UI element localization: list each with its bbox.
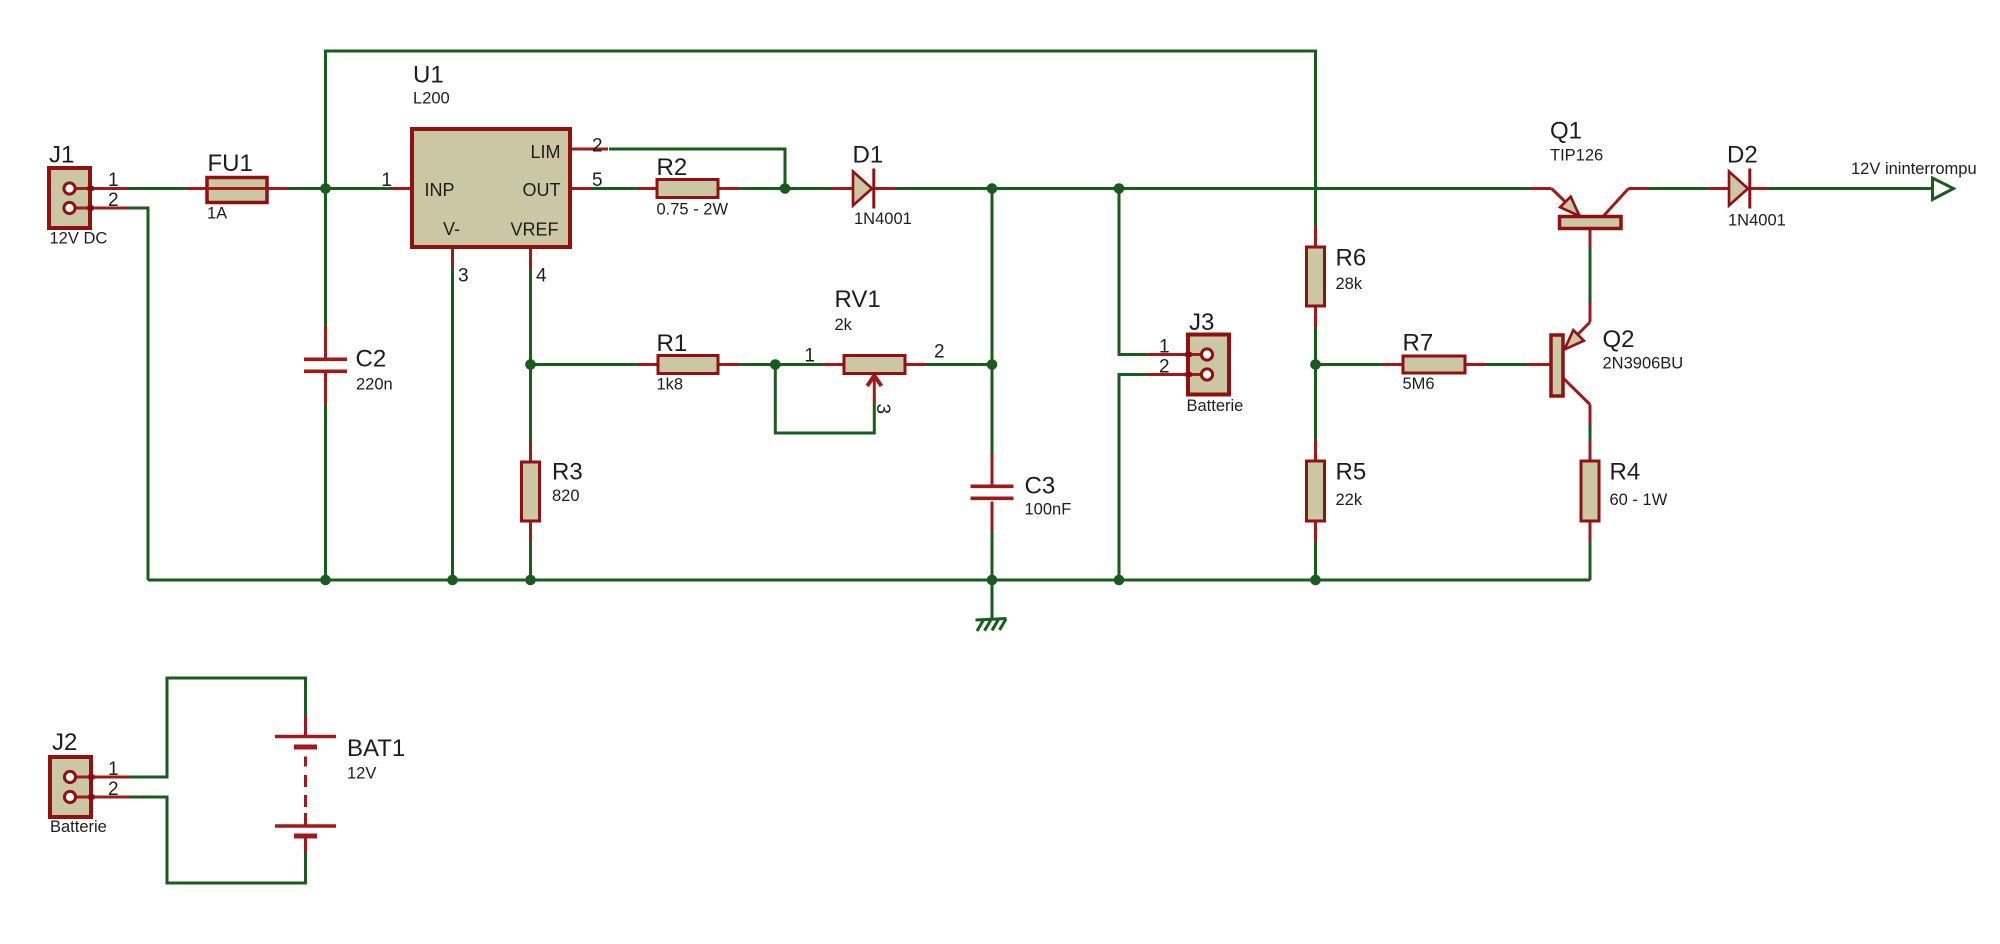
- wire J2 pin1 loop to BAT1 plus: [130, 678, 306, 777]
- resistor R2: [637, 180, 739, 198]
- node junction VREF/R1/R3: [525, 359, 536, 370]
- svg-text:R3: R3: [552, 459, 583, 486]
- node junction bottom rail C2: [320, 575, 331, 586]
- svg-text:5M6: 5M6: [1403, 375, 1435, 393]
- capacitor C3: [971, 453, 1014, 531]
- wire node B to R7: [1316, 363, 1383, 366]
- svg-text:D2: D2: [1727, 142, 1758, 169]
- svg-text:12V ininterrompu: 12V ininterrompu: [1851, 160, 1977, 178]
- svg-text:1: 1: [108, 759, 119, 780]
- connector J3: [1148, 335, 1229, 395]
- svg-text:2: 2: [934, 342, 945, 363]
- resistor R5: [1307, 440, 1325, 542]
- node junction R6/R5/R7: [1310, 359, 1321, 370]
- svg-text:22k: 22k: [1336, 491, 1363, 509]
- svg-text:LIM: LIM: [530, 142, 560, 162]
- wire J1 pin1 to FU1: [128, 187, 186, 190]
- svg-text:5: 5: [592, 170, 603, 191]
- node junction bottom rail V-: [447, 575, 458, 586]
- wire ground stub: [991, 580, 994, 619]
- wire FU1 to U1 INP: [288, 187, 391, 190]
- svg-text:2: 2: [108, 190, 119, 211]
- svg-text:C2: C2: [356, 346, 387, 373]
- svg-text:4: 4: [536, 266, 547, 287]
- wire node B to R5 top: [1314, 365, 1317, 441]
- svg-text:OUT: OUT: [523, 180, 561, 200]
- wire C3 column lower: [991, 531, 994, 580]
- node junction LIM/OUT: [780, 183, 791, 194]
- svg-text:0.75 - 2W: 0.75 - 2W: [657, 201, 729, 219]
- node junction RV1 pin2/C3: [987, 359, 998, 370]
- diode D2: [1707, 169, 1768, 209]
- wire U1 OUT to R2: [591, 187, 637, 190]
- svg-text:V-: V-: [443, 219, 460, 239]
- svg-text:Batterie: Batterie: [50, 818, 107, 836]
- transistor Q1 TIP126: [1529, 189, 1649, 249]
- wire RV1 wiper loop: [775, 365, 874, 434]
- svg-text:1: 1: [108, 170, 119, 191]
- svg-text:12V: 12V: [347, 765, 376, 783]
- svg-text:FU1: FU1: [208, 150, 253, 177]
- svg-text:2N3906BU: 2N3906BU: [1603, 355, 1684, 373]
- capacitor C2: [304, 326, 347, 404]
- wire R2 to D1 anode: [739, 187, 832, 190]
- svg-text:1k8: 1k8: [657, 376, 684, 394]
- svg-text:R6: R6: [1336, 245, 1367, 272]
- svg-text:3: 3: [872, 404, 893, 415]
- connector J1: [49, 168, 128, 228]
- wire bottom ground rail: [148, 579, 1590, 582]
- node junction FU1/C2/top-rail: [320, 183, 331, 194]
- svg-text:BAT1: BAT1: [347, 735, 405, 762]
- svg-text:R2: R2: [657, 154, 688, 181]
- svg-text:L200: L200: [413, 90, 450, 108]
- svg-text:28k: 28k: [1336, 275, 1363, 293]
- svg-text:60 - 1W: 60 - 1W: [1610, 491, 1668, 509]
- wire node A to R1: [531, 363, 638, 366]
- wire D2 cathode to output terminal: [1768, 187, 1933, 190]
- node junction bottom rail R3: [525, 575, 536, 586]
- wire C2 column lower: [324, 404, 327, 580]
- wire R3 bottom to rail: [529, 542, 532, 580]
- svg-text:VREF: VREF: [510, 220, 558, 240]
- svg-text:3: 3: [458, 266, 469, 287]
- wire D1 cathode to Q1 emitter: [896, 187, 1529, 190]
- wire main rail to J3 pin1: [1119, 189, 1148, 355]
- svg-text:TIP126: TIP126: [1550, 147, 1603, 165]
- fuse FU1: [186, 178, 288, 203]
- svg-text:2: 2: [1159, 357, 1170, 378]
- svg-text:J3: J3: [1189, 309, 1214, 336]
- diode D1: [832, 169, 896, 209]
- wire Q1 collector to D2 anode: [1649, 187, 1708, 190]
- ground: [976, 619, 1007, 632]
- svg-text:D1: D1: [853, 142, 884, 169]
- svg-text:2: 2: [592, 136, 603, 157]
- regulator U1 L200: [391, 129, 608, 268]
- connector J2: [50, 757, 130, 817]
- wire J1 pin2 down to bottom rail: [128, 208, 148, 580]
- svg-text:100nF: 100nF: [1025, 501, 1072, 519]
- svg-text:R4: R4: [1610, 459, 1641, 486]
- svg-text:Q2: Q2: [1603, 326, 1635, 353]
- svg-text:J1: J1: [49, 142, 74, 169]
- svg-text:R7: R7: [1403, 330, 1434, 357]
- svg-text:1A: 1A: [207, 205, 227, 223]
- svg-text:INP: INP: [425, 180, 455, 200]
- transistor Q2 2N3906BU: [1528, 303, 1590, 426]
- svg-text:Batterie: Batterie: [1187, 397, 1244, 415]
- node junction rail/C3: [987, 183, 998, 194]
- wire U1 VREF to node A: [529, 268, 532, 365]
- svg-text:2: 2: [108, 779, 119, 800]
- wire C3 column upper: [991, 189, 994, 454]
- svg-text:1: 1: [381, 170, 392, 191]
- svg-text:220n: 220n: [356, 376, 393, 394]
- node junction rail/J3: [1114, 183, 1125, 194]
- wire J3 pin2 to bottom rail: [1119, 375, 1148, 581]
- wire R4 bottom to rail: [1589, 542, 1592, 580]
- resistor R7: [1382, 356, 1486, 373]
- node junction R1/RV1 wiper: [770, 359, 781, 370]
- wire RV1 pin2 to C3 column: [926, 363, 992, 366]
- battery BAT1: [275, 716, 336, 853]
- node junction bottom rail R5: [1310, 575, 1321, 586]
- wire R6 bottom to node B: [1314, 327, 1317, 365]
- svg-text:U1: U1: [413, 62, 444, 89]
- svg-text:1: 1: [804, 346, 815, 367]
- node junction bottom rail J3: [1114, 575, 1125, 586]
- potentiometer RV1: [823, 356, 926, 403]
- output terminal arrow 12V ininterrompu: [1933, 178, 1954, 200]
- svg-text:12V DC: 12V DC: [50, 230, 108, 248]
- svg-text:RV1: RV1: [835, 286, 881, 313]
- svg-text:1N4001: 1N4001: [854, 210, 912, 228]
- svg-text:1N4001: 1N4001: [1728, 212, 1786, 230]
- wire Q2 collector to R4 top: [1589, 426, 1592, 441]
- resistor R6: [1307, 226, 1325, 327]
- wire top rail from C2 column to R6 top: [326, 51, 1316, 226]
- resistor R1: [637, 356, 739, 374]
- svg-text:Q1: Q1: [1550, 118, 1582, 145]
- svg-text:R1: R1: [657, 330, 688, 357]
- wire U1 V- column: [451, 268, 454, 580]
- wire J2 pin2 loop to BAT1 minus: [130, 797, 306, 883]
- wire Q1 base to Q2 emitter: [1589, 248, 1592, 303]
- svg-text:1: 1: [1159, 337, 1170, 358]
- resistor R4: [1581, 440, 1599, 542]
- node junction bottom rail ground: [987, 575, 998, 586]
- svg-text:2k: 2k: [835, 316, 853, 334]
- wire LIM loop to OUT node: [609, 149, 785, 189]
- wire R1 to RV1 pin1: [739, 363, 823, 366]
- svg-text:820: 820: [552, 487, 580, 505]
- svg-text:C3: C3: [1025, 473, 1056, 500]
- wire R7 to Q2 base: [1486, 363, 1528, 366]
- wire C2 column upper: [324, 189, 327, 327]
- wire R5 bottom to rail: [1314, 542, 1317, 580]
- resistor R3: [522, 441, 540, 542]
- wire node A to R3 top: [529, 365, 532, 442]
- svg-text:R5: R5: [1336, 459, 1367, 486]
- svg-text:J2: J2: [52, 729, 77, 756]
